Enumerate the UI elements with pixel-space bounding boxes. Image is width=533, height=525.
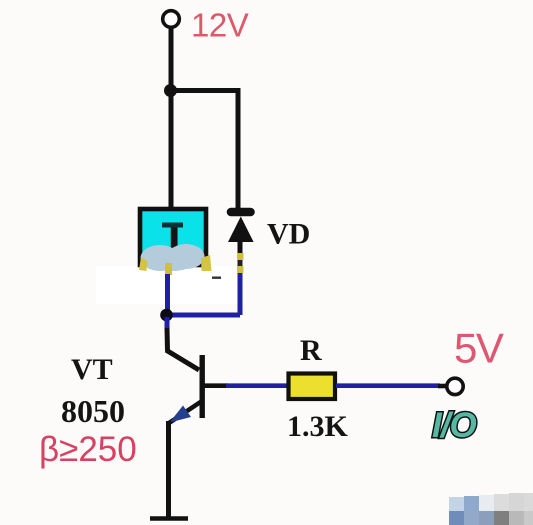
base bar bbox=[200, 355, 205, 418]
emitter vertical lead bbox=[166, 421, 171, 518]
svg-text:5V: 5V bbox=[454, 325, 504, 372]
ground bar bbox=[150, 516, 188, 521]
wire: 12V terminal down to junction and relay top bbox=[169, 26, 174, 209]
wire: resistor to 5V terminal bbox=[336, 383, 440, 388]
wire: blue vertical up to diode anode bbox=[238, 270, 243, 315]
emitter arrow bbox=[170, 406, 192, 423]
white patch below relay bbox=[96, 266, 246, 304]
yellow residue relay bottom-left bbox=[139, 257, 148, 271]
eraser blob over relay bottom bbox=[141, 244, 205, 271]
wire: horizontal from junction to diode branch bbox=[169, 88, 240, 93]
yellow residue relay bottom-right bbox=[201, 255, 212, 271]
wire: diode branch vertical down to diode cathode bbox=[236, 88, 241, 208]
svg-text:12V: 12V bbox=[191, 7, 249, 44]
wire: base to resistor (navy) bbox=[226, 383, 290, 388]
wire: relay bottom stub (yellow residue + navy) bbox=[165, 263, 172, 275]
wire: blue horizontal under relay bbox=[164, 313, 240, 318]
diode triangle (anode, pointing up) bbox=[228, 217, 254, 243]
diode VD bbox=[228, 212, 254, 273]
node: junction below relay bbox=[160, 309, 173, 322]
svg-text:β≥250: β≥250 bbox=[39, 430, 137, 469]
collector lead from junction bbox=[165, 317, 170, 330]
node: junction at 12V rail bbox=[164, 84, 177, 97]
svg-text:8050: 8050 bbox=[61, 393, 125, 429]
pixelated watermark bottom-right bbox=[449, 493, 533, 525]
svg-text:I/O: I/O bbox=[432, 406, 476, 445]
transistor VT (8050 NPN) bbox=[166, 317, 228, 518]
diode cathode bar bbox=[231, 208, 251, 217]
terminal: 5V / IO open circle bbox=[447, 378, 463, 394]
svg-text:R: R bbox=[300, 334, 322, 367]
svg-text:1.3K: 1.3K bbox=[287, 410, 349, 443]
resistor R bbox=[289, 374, 336, 400]
terminal: 12V open circle bbox=[163, 11, 180, 28]
small stray mark right of white patch bbox=[212, 277, 221, 279]
svg-text:VD: VD bbox=[267, 218, 310, 251]
relay J (cyan box) bbox=[140, 209, 206, 265]
svg-text:VT: VT bbox=[71, 353, 113, 386]
emitter diagonal bbox=[169, 401, 202, 423]
base lead (to resistor) bbox=[204, 383, 228, 388]
diode lower lead with yellow residue bbox=[238, 240, 243, 254]
